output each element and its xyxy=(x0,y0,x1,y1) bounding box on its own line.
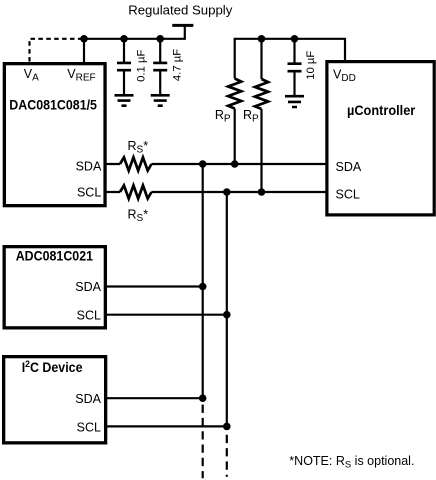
svg-text:10 µF: 10 µF xyxy=(305,51,317,80)
svg-text:SCL: SCL xyxy=(77,421,101,435)
svg-text:RP: RP xyxy=(243,108,259,125)
svg-text:SDA: SDA xyxy=(75,280,101,294)
svg-text:*NOTE: RS is optional.: *NOTE: RS is optional. xyxy=(289,454,414,471)
svg-text:SCL: SCL xyxy=(77,185,101,199)
svg-text:VDD: VDD xyxy=(333,68,356,85)
svg-text:RS*: RS* xyxy=(128,139,149,156)
svg-text:0.1 µF: 0.1 µF xyxy=(136,50,148,82)
svg-text:µController: µController xyxy=(347,103,415,118)
svg-text:SDA: SDA xyxy=(76,159,102,173)
svg-text:I2C Device: I2C Device xyxy=(22,359,83,375)
svg-text:DAC081C081/5: DAC081C081/5 xyxy=(9,97,97,113)
svg-text:4.7 µF: 4.7 µF xyxy=(172,49,184,81)
svg-text:RP: RP xyxy=(215,108,231,125)
svg-text:SCL: SCL xyxy=(336,188,360,202)
svg-text:Regulated Supply: Regulated Supply xyxy=(128,3,233,18)
svg-text:SCL: SCL xyxy=(77,308,101,322)
svg-text:SDA: SDA xyxy=(336,160,362,174)
svg-text:VREF: VREF xyxy=(67,67,95,84)
svg-text:RS*: RS* xyxy=(128,207,149,224)
svg-text:VA: VA xyxy=(24,67,39,84)
svg-text:ADC081C021: ADC081C021 xyxy=(16,248,93,264)
svg-text:SDA: SDA xyxy=(75,392,101,406)
